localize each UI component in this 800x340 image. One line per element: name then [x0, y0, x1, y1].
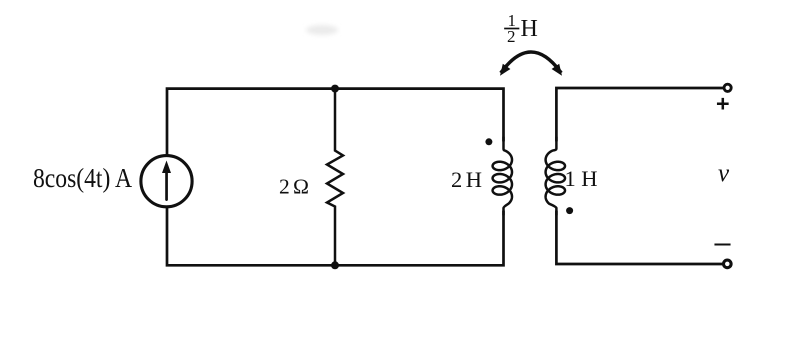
svg-text:2 H: 2 H	[451, 167, 482, 192]
svg-text:8cos(4t) A: 8cos(4t) A	[33, 163, 132, 193]
svg-text:2: 2	[507, 27, 516, 46]
svg-text:2 Ω: 2 Ω	[279, 175, 309, 199]
svg-text:v: v	[718, 160, 730, 187]
svg-text:H: H	[521, 16, 538, 42]
svg-text:1 H: 1 H	[565, 166, 598, 191]
